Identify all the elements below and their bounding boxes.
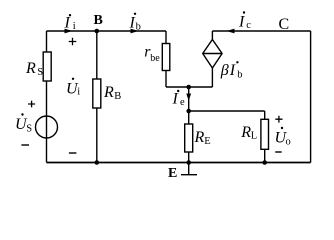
svg-text:R: R — [25, 60, 36, 77]
svg-text:I: I — [129, 15, 136, 32]
svg-text:be: be — [150, 53, 160, 64]
overdot US — [21, 113, 23, 115]
svg-text:o: o — [286, 137, 291, 148]
svg-text:β: β — [220, 62, 229, 79]
svg-text:I: I — [238, 14, 245, 31]
wire left vertical lower through source — [46, 81, 48, 163]
svg-text:C: C — [279, 16, 290, 33]
overdot Ii — [69, 14, 71, 16]
wire RB branch upper — [96, 31, 98, 79]
svg-text:R: R — [240, 124, 251, 141]
overdot Uo — [281, 127, 283, 129]
current source beta Ib diamond — [203, 40, 222, 69]
wire emitter to RL horizontal — [189, 110, 265, 112]
wire right vertical — [310, 31, 312, 163]
wire RL branch upper — [264, 111, 266, 119]
label minus Uo — [275, 151, 282, 153]
svg-text:S: S — [26, 124, 32, 135]
svg-text:i: i — [77, 87, 80, 98]
svg-text:L: L — [251, 131, 257, 142]
junction dot rail RB — [95, 160, 100, 165]
svg-text:i: i — [73, 21, 76, 32]
overdot Ie — [177, 90, 179, 92]
overdot beta-Ib — [236, 61, 238, 63]
current source internal chord — [203, 53, 222, 55]
svg-text:b: b — [237, 70, 242, 81]
junction dot emitter mid — [186, 109, 191, 114]
source US circle — [36, 116, 58, 138]
arrow Ie — [186, 94, 191, 102]
label plus US — [28, 101, 35, 108]
label minus US — [21, 144, 29, 146]
wire RB branch lower — [96, 108, 98, 163]
junction dot emitter top — [186, 85, 191, 90]
junction dot rail RE — [186, 160, 191, 165]
svg-text:R: R — [103, 84, 114, 101]
wire emitter vertical — [188, 87, 190, 124]
wire emitter horizontal — [166, 86, 212, 88]
label plus Ui — [69, 38, 77, 46]
svg-text:S: S — [37, 67, 43, 78]
arrow Ib — [131, 29, 139, 34]
junction dot rail RL — [262, 160, 267, 165]
wire diamond stem down — [211, 68, 213, 87]
resistor RE — [185, 124, 193, 152]
wire diamond stem up — [211, 31, 213, 40]
overdot Ui — [72, 78, 74, 80]
ground stub — [188, 163, 190, 175]
wire bottom rail — [47, 162, 311, 164]
resistor RB — [93, 79, 101, 108]
resistor RL — [261, 119, 269, 149]
svg-text:c: c — [246, 20, 251, 31]
svg-text:B: B — [94, 13, 103, 28]
label minus Ui — [69, 152, 77, 154]
wire top right: from diamond stem to C corner and right vertical — [212, 30, 310, 32]
svg-text:B: B — [114, 91, 121, 102]
svg-text:I: I — [229, 62, 236, 79]
resistor r_be — [162, 44, 170, 71]
arrow Ic — [227, 29, 235, 34]
label plus Uo — [275, 116, 282, 123]
wire r_be branch upper — [165, 31, 167, 44]
ground bar — [181, 174, 197, 176]
svg-text:b: b — [136, 22, 141, 33]
arrow Ii — [65, 29, 73, 34]
svg-text:e: e — [180, 97, 185, 108]
svg-text:I: I — [172, 91, 179, 108]
svg-text:E: E — [168, 166, 177, 181]
overdot Ib — [134, 13, 136, 15]
wire left vertical upper — [46, 31, 48, 52]
wire r_be branch lower — [165, 71, 167, 88]
wire RE to rail — [188, 152, 190, 163]
wire RL to rail — [264, 149, 266, 162]
overdot Ic — [243, 11, 245, 13]
resistor RS — [43, 52, 51, 81]
node B junction dot — [95, 29, 100, 34]
wire top left: from RS branch to r_be branch — [47, 30, 167, 32]
svg-text:E: E — [204, 136, 210, 147]
svg-text:R: R — [194, 129, 205, 146]
svg-text:I: I — [64, 15, 71, 32]
